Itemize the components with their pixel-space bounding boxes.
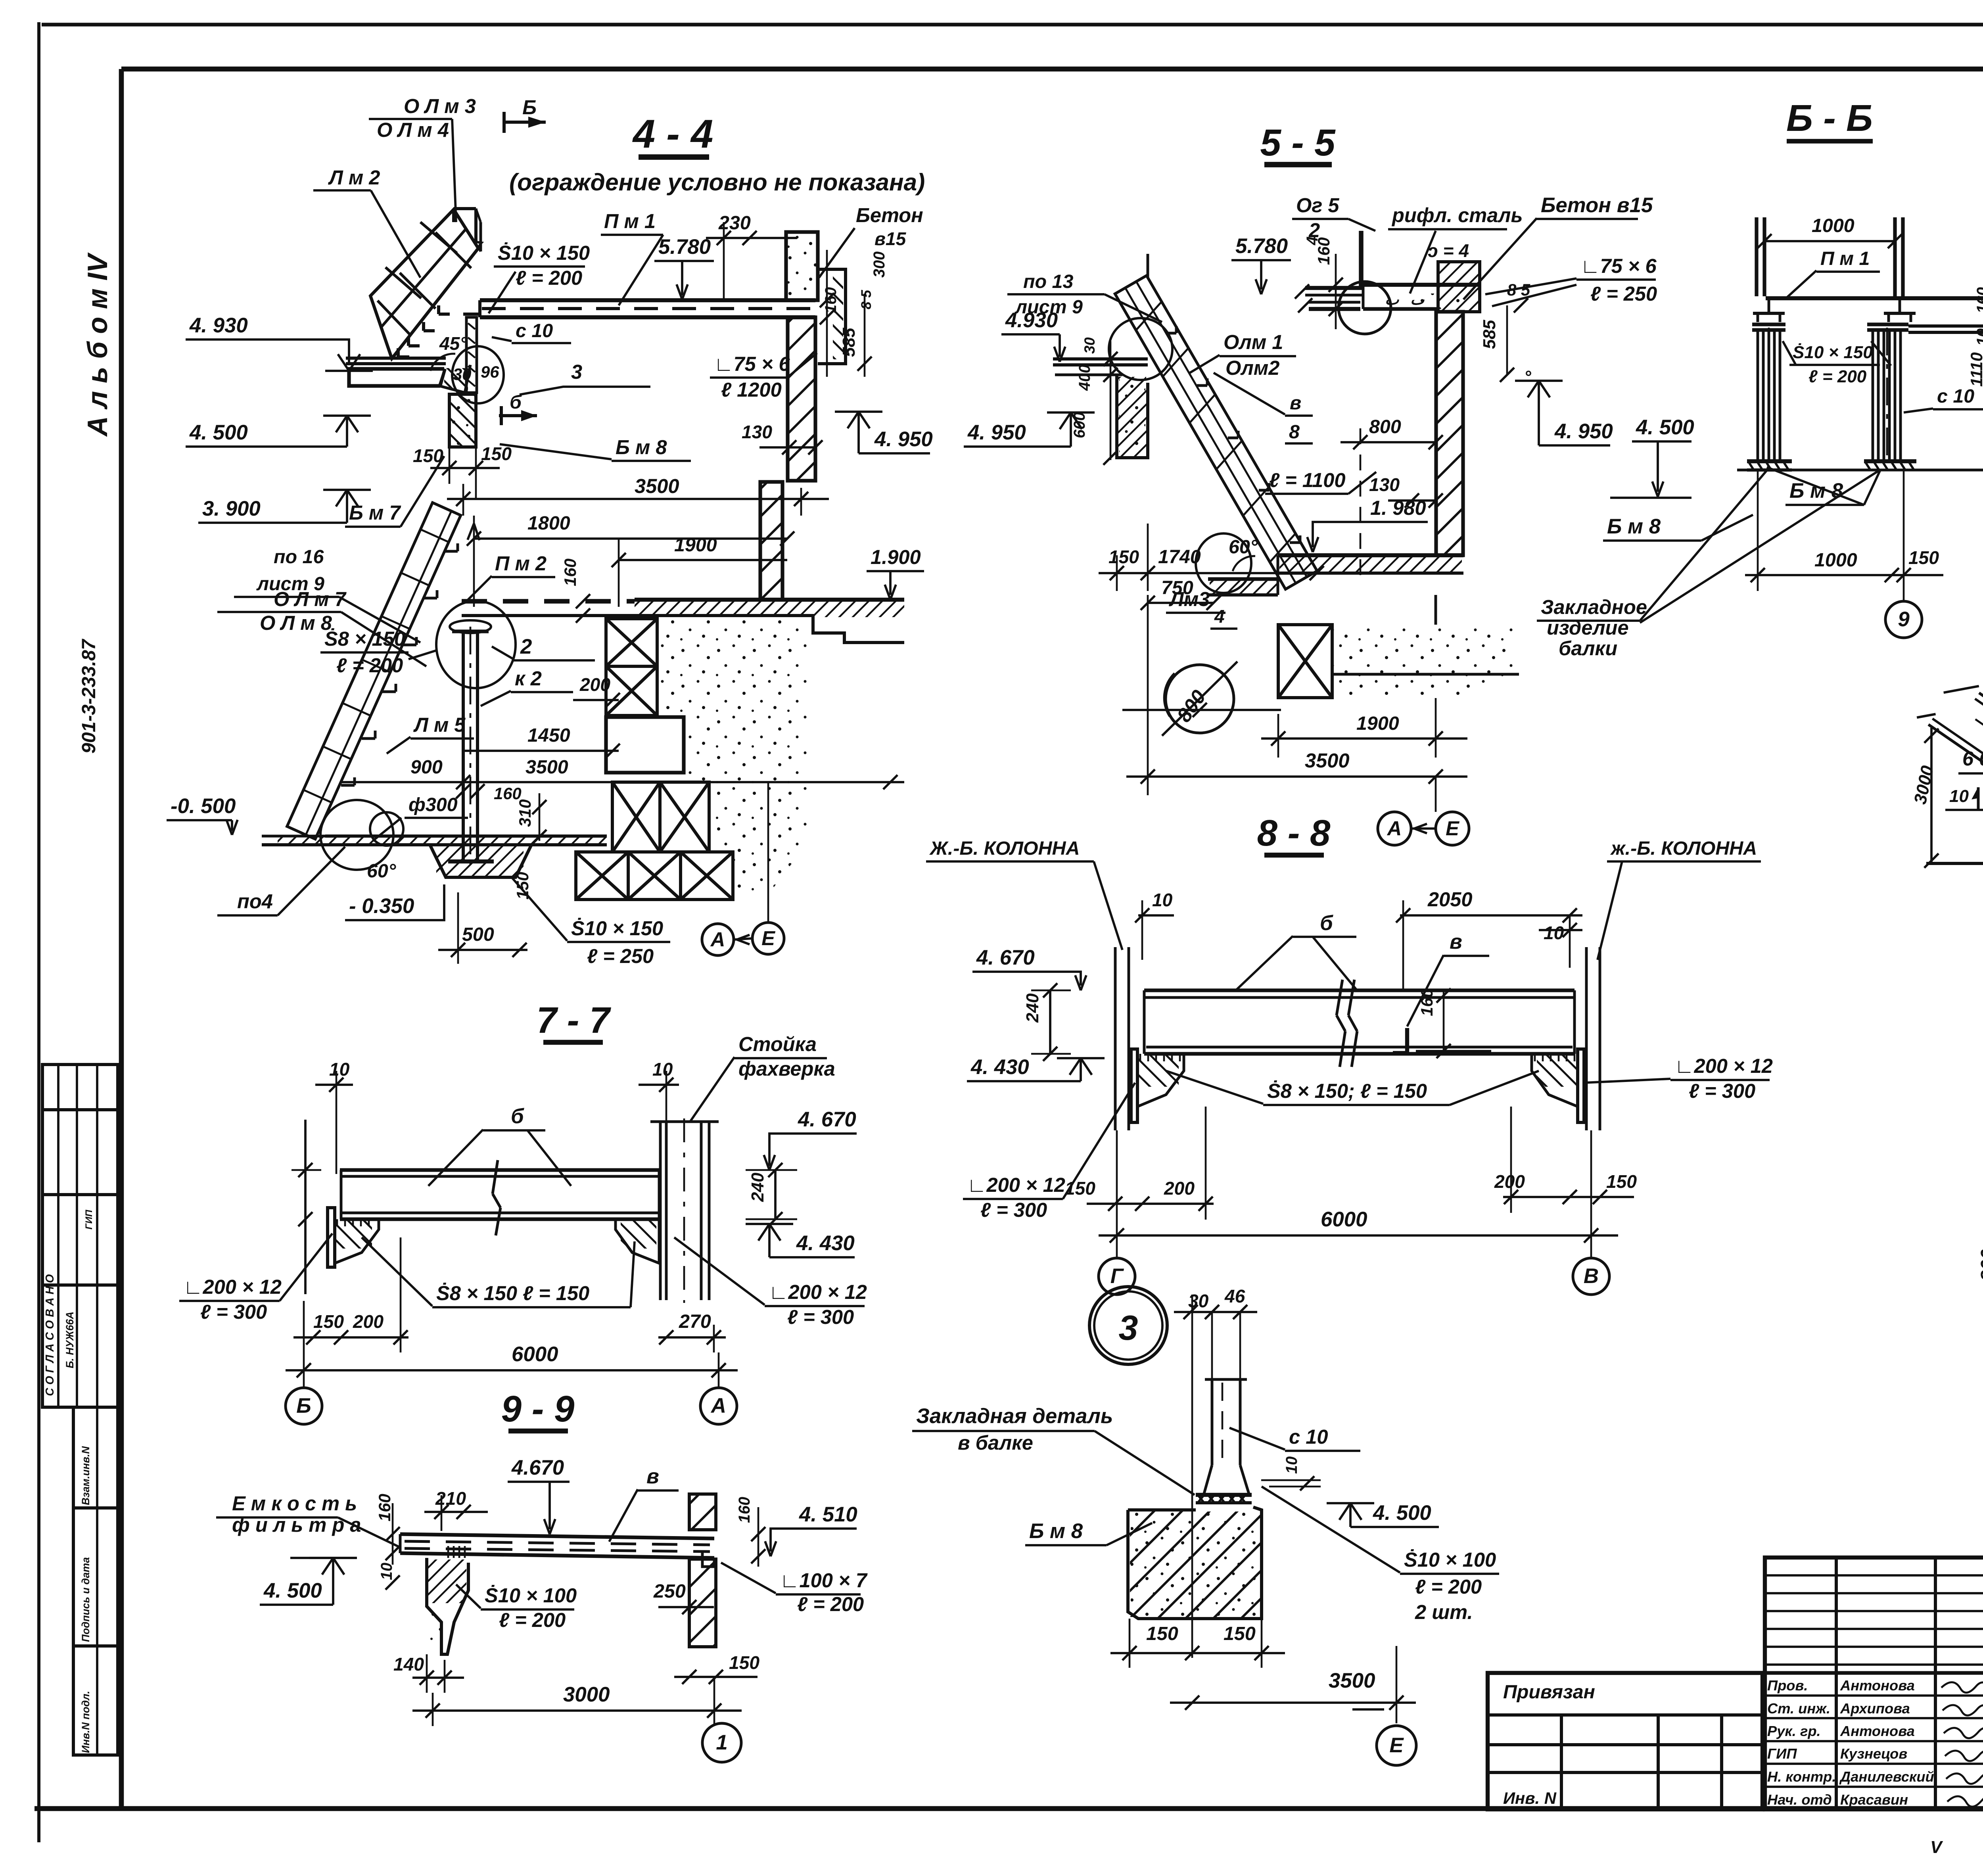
svg-text:8 - 8: 8 - 8 <box>1257 812 1331 854</box>
svg-text:4.930: 4.930 <box>1005 309 1058 332</box>
svg-text:ж.-Б. КОЛОННА: ж.-Б. КОЛОННА <box>1610 838 1757 859</box>
svg-text:∟200 × 12: ∟200 × 12 <box>1674 1055 1773 1077</box>
svg-text:-0. 500: -0. 500 <box>171 794 236 818</box>
svg-text:Б: Б <box>296 1394 311 1418</box>
svg-text:3500: 3500 <box>635 475 679 497</box>
svg-text:Привязан: Привязан <box>1503 1681 1595 1703</box>
svg-text:4. 430: 4. 430 <box>796 1231 855 1255</box>
svg-text:30: 30 <box>1081 337 1098 354</box>
ground line 6-6 <box>1737 469 1983 472</box>
floor slab dashed Pm2 <box>462 599 635 604</box>
left console bracket 9-9 <box>427 1558 468 1654</box>
ladder flight Lm5 <box>287 503 461 839</box>
svg-text:1900: 1900 <box>674 534 717 556</box>
svg-text:ГИП: ГИП <box>84 1210 94 1230</box>
svg-text:фахверка: фахверка <box>738 1057 835 1080</box>
detail circle 5-5 top right <box>1339 282 1391 334</box>
column right 6-6 fluted <box>1872 330 1874 461</box>
svg-text:П м 2: П м 2 <box>495 552 547 575</box>
svg-text:в: в <box>1450 930 1462 953</box>
ladder top peak 5-5 <box>1147 254 1149 278</box>
svg-text:46: 46 <box>1224 1286 1245 1306</box>
svg-text:Антонова: Антонова <box>1840 1677 1915 1694</box>
ladder flight Lm2 band <box>370 209 478 359</box>
svg-text:3. 900: 3. 900 <box>202 497 261 520</box>
svg-text:150: 150 <box>413 445 443 466</box>
svg-text:А: А <box>1387 817 1402 840</box>
svg-text:Красавин: Красавин <box>1840 1792 1908 1808</box>
wall below slab right 4-4 <box>788 317 815 481</box>
svg-text:4. 670: 4. 670 <box>976 946 1035 969</box>
svg-text:1740: 1740 <box>1158 546 1201 568</box>
left slab 5-5 <box>1053 357 1148 361</box>
svg-text:П м 1: П м 1 <box>1820 248 1870 269</box>
detail circle 5-5 mid <box>1109 318 1172 380</box>
svg-text:∟75 × 6: ∟75 × 6 <box>1580 255 1657 277</box>
svg-text:240: 240 <box>748 1172 767 1202</box>
svg-text:4.670: 4.670 <box>511 1456 564 1479</box>
svg-text:200: 200 <box>1494 1171 1525 1192</box>
svg-text:- 0.350: - 0.350 <box>349 894 414 918</box>
svg-text:Ог 5: Ог 5 <box>1296 194 1339 217</box>
svg-text:Бетон в15: Бетон в15 <box>1541 194 1653 217</box>
svg-text:6 0°: 6 0° <box>1962 747 1983 770</box>
svg-text:3: 3 <box>571 361 582 383</box>
svg-text:130: 130 <box>1369 474 1400 495</box>
bracket left 8-8 <box>1137 1054 1184 1107</box>
svg-text:4. 510: 4. 510 <box>799 1503 857 1526</box>
title block signature table <box>1765 1558 1983 1809</box>
X foundation blocks bottom row <box>576 852 628 900</box>
svg-text:140: 140 <box>393 1654 424 1675</box>
svg-text:рифл. сталь: рифл. сталь <box>1391 204 1523 226</box>
svg-text:10: 10 <box>1949 786 1969 806</box>
base plates 6-6 <box>1747 459 1792 463</box>
svg-text:4. 670: 4. 670 <box>798 1108 856 1131</box>
column K2 cap <box>452 629 489 633</box>
svg-text:400: 400 <box>1076 364 1093 391</box>
railing channel bars 5-5 <box>1305 286 1363 290</box>
svg-text:∟200 × 12: ∟200 × 12 <box>183 1276 282 1298</box>
svg-text:3000: 3000 <box>563 1683 610 1706</box>
svg-text:4. 500: 4. 500 <box>1636 416 1694 439</box>
svg-text:Ж.-Б. КОЛОННА: Ж.-Б. КОЛОННА <box>929 838 1080 859</box>
svg-text:210: 210 <box>435 1488 466 1509</box>
svg-text:по 13: по 13 <box>1023 271 1073 292</box>
svg-text:Ṡ10 × 100: Ṡ10 × 100 <box>1404 1548 1496 1571</box>
slab line 6-6 <box>1766 296 1983 300</box>
ground line detail4 <box>1926 862 1983 865</box>
svg-text:Пров.: Пров. <box>1767 1677 1808 1694</box>
beam 8-8 <box>1144 988 1575 992</box>
beam break marks 7-7 <box>493 1160 498 1194</box>
column K2 <box>462 631 465 861</box>
rail beam right 6-6 <box>1908 324 1983 328</box>
svg-text:Ṡ8 × 150: Ṡ8 × 150 <box>324 627 405 650</box>
vertical dim line left 7-7 <box>304 1120 307 1294</box>
page outer border left <box>37 22 40 1842</box>
svg-text:Подпись и дата: Подпись и дата <box>80 1557 92 1642</box>
concrete block right 5-5 <box>1438 262 1480 312</box>
ladder foot circle 5-5 <box>1196 533 1251 593</box>
svg-text:96: 96 <box>481 363 499 381</box>
svg-text:Б - Б: Б - Б <box>1786 97 1873 139</box>
svg-text:4 - 4: 4 - 4 <box>632 111 713 156</box>
svg-text:3: 3 <box>1119 1308 1138 1347</box>
svg-text:150: 150 <box>513 872 532 900</box>
drawing frame left <box>119 69 124 1809</box>
svg-text:Антонова: Антонова <box>1840 1723 1915 1739</box>
column right 8-8 <box>1585 947 1588 1130</box>
svg-text:5.780: 5.780 <box>658 235 711 259</box>
svg-text:310: 310 <box>516 799 534 827</box>
svg-text:по 16: по 16 <box>274 546 324 568</box>
svg-text:10: 10 <box>1283 1456 1300 1474</box>
svg-text:∟200 × 12: ∟200 × 12 <box>769 1281 867 1303</box>
svg-text:150: 150 <box>729 1652 759 1673</box>
svg-text:10: 10 <box>1974 328 1983 346</box>
svg-text:1800: 1800 <box>527 512 570 534</box>
svg-text:ℓ = 200: ℓ = 200 <box>797 1593 864 1615</box>
left plate 7-7 <box>328 1208 335 1267</box>
wall parapet right 4-4 <box>786 232 818 300</box>
svg-text:V: V <box>1930 1838 1943 1857</box>
slab edge right 5-5 lower <box>1435 595 1437 625</box>
column left 6-6 fluted <box>1757 330 1759 461</box>
svg-text:1900: 1900 <box>1356 713 1399 734</box>
right column fahverka 7-7 <box>659 1122 662 1300</box>
svg-text:балки: балки <box>1559 637 1617 660</box>
svg-text:4. 500: 4. 500 <box>1373 1501 1431 1525</box>
svg-text:°: ° <box>1524 367 1531 387</box>
svg-text:в: в <box>1290 392 1301 414</box>
svg-text:Л м 5: Л м 5 <box>413 714 466 736</box>
svg-text:Л м 2: Л м 2 <box>328 166 380 189</box>
svg-text:∟100 × 7: ∟100 × 7 <box>780 1569 868 1592</box>
svg-text:Е: Е <box>761 927 775 950</box>
svg-text:Олм 1: Олм 1 <box>1224 331 1283 353</box>
svg-text:8 5: 8 5 <box>859 290 874 309</box>
svg-text:ℓ = 1100: ℓ = 1100 <box>1269 469 1346 491</box>
column K2 base <box>448 859 494 863</box>
svg-text:В: В <box>1584 1264 1599 1288</box>
base plate weld detail3 <box>1196 1493 1252 1497</box>
tread hooks Lm2 <box>439 313 450 316</box>
svg-text:901-3-233.87: 901-3-233.87 <box>78 639 100 754</box>
svg-text:160: 160 <box>822 287 840 313</box>
svg-text:с 10: с 10 <box>1937 386 1974 407</box>
svg-text:3500: 3500 <box>1305 749 1350 772</box>
svg-text:4. 930: 4. 930 <box>189 314 248 337</box>
axis bubbles A E 5-5 <box>1378 812 1411 845</box>
svg-text:б: б <box>511 1105 524 1128</box>
svg-text:160: 160 <box>561 558 579 586</box>
svg-text:О Л м 8: О Л м 8 <box>260 612 332 634</box>
svg-text:ℓ = 200: ℓ = 200 <box>499 1609 566 1631</box>
svg-text:б: б <box>510 391 522 413</box>
svg-text:4. 430: 4. 430 <box>970 1055 1029 1079</box>
svg-text:9: 9 <box>1898 608 1910 631</box>
svg-text:10: 10 <box>1152 890 1173 910</box>
stud marks 9-9 <box>447 1546 449 1558</box>
svg-text:Б м 8: Б м 8 <box>1029 1519 1083 1543</box>
svg-text:Е: Е <box>1389 1734 1404 1757</box>
detail circle lower left <box>320 800 393 870</box>
svg-text:Стойка: Стойка <box>738 1033 817 1055</box>
foundation pit under K2 <box>430 845 531 877</box>
slab body 5-5 <box>1363 283 1478 287</box>
svg-text:1450: 1450 <box>527 725 570 746</box>
svg-text:Б. НУЖ66А: Б. НУЖ66А <box>64 1312 76 1368</box>
svg-text:60°: 60° <box>1229 536 1258 558</box>
svg-text:150: 150 <box>1908 547 1939 568</box>
axis bubbles A E lower 4-4 <box>702 924 734 955</box>
ladder flight Lm2 lattice <box>435 232 471 268</box>
svg-text:2050: 2050 <box>1427 888 1473 911</box>
wall lower 4-4 <box>760 482 782 600</box>
svg-text:Архипова: Архипова <box>1840 1700 1910 1717</box>
svg-text:в балке: в балке <box>958 1431 1033 1454</box>
beam flanges 6-6 <box>1753 312 1785 315</box>
svg-text:300: 300 <box>871 251 888 278</box>
title block signatures scribbles <box>1941 1682 1983 1807</box>
svg-text:Закладная деталь: Закладная деталь <box>916 1404 1113 1428</box>
right wall 9-9 <box>689 1494 716 1530</box>
svg-text:200: 200 <box>353 1311 384 1332</box>
svg-text:1: 1 <box>716 1731 727 1754</box>
column caps 6-6 <box>1752 322 1785 326</box>
title block privyazan table <box>1488 1673 1762 1809</box>
slab haunch detail <box>439 365 470 393</box>
plain foundation block <box>606 717 684 773</box>
svg-text:Взам.инв.N: Взам.инв.N <box>80 1446 92 1505</box>
svg-text:1.900: 1.900 <box>871 546 921 568</box>
beams above slab 6-6 <box>1755 217 1758 296</box>
svg-text:Б м 8: Б м 8 <box>1607 515 1661 538</box>
svg-text:3500: 3500 <box>1329 1669 1375 1692</box>
svg-text:130: 130 <box>742 422 772 442</box>
svg-text:Ṡ8 × 150 ℓ = 150: Ṡ8 × 150 ℓ = 150 <box>436 1282 589 1304</box>
dim line through circle 5-5 <box>1122 709 1281 711</box>
beam 7-7 <box>340 1168 660 1172</box>
svg-text:2 шт.: 2 шт. <box>1415 1601 1473 1623</box>
svg-text:Инв.N подл.: Инв.N подл. <box>80 1691 92 1753</box>
svg-text:Б м 8: Б м 8 <box>616 436 667 458</box>
floor slab 5-5 bottom <box>1278 553 1463 557</box>
svg-text:8 5: 8 5 <box>1507 280 1530 299</box>
svg-text:240: 240 <box>1023 993 1042 1023</box>
svg-text:10: 10 <box>1544 923 1564 943</box>
svg-text:А: А <box>710 928 725 951</box>
svg-text:Ṡ10 × 150: Ṡ10 × 150 <box>571 917 663 940</box>
block Bm8 detail3 <box>1128 1507 1262 1619</box>
svg-text:б: б <box>1320 911 1333 935</box>
beam break marks 8-8 <box>1337 980 1342 1015</box>
svg-text:О Л м 7: О Л м 7 <box>274 588 347 610</box>
slab 9-9 <box>400 1534 714 1538</box>
bearing plate right 8-8 <box>1578 1049 1584 1122</box>
ladder treads Lm5 <box>341 784 355 787</box>
svg-text:Б: Б <box>522 96 537 119</box>
svg-text:Е м к о с т ь: Е м к о с т ь <box>232 1492 357 1515</box>
svg-text:4: 4 <box>1214 606 1225 627</box>
detail circle 2 mark lower <box>436 601 516 688</box>
column left 8-8 <box>1114 947 1117 1130</box>
svg-text:900: 900 <box>410 756 443 778</box>
svg-text:10: 10 <box>378 1563 395 1580</box>
svg-text:Ṡ8 × 150; ℓ = 150: Ṡ8 × 150; ℓ = 150 <box>1267 1080 1427 1102</box>
svg-text:9 - 9: 9 - 9 <box>501 1388 575 1429</box>
svg-text:Ṡ10 × 100: Ṡ10 × 100 <box>485 1584 577 1607</box>
svg-text:С О Г Л А С О В А Н О: С О Г Л А С О В А Н О <box>44 1274 56 1396</box>
svg-text:30: 30 <box>453 365 472 384</box>
circle 800 mark 5-5 <box>1166 665 1234 733</box>
svg-text:4. 500: 4. 500 <box>263 1579 322 1602</box>
svg-text:800: 800 <box>1977 1249 1983 1281</box>
svg-text:П м 1: П м 1 <box>604 210 656 232</box>
svg-text:Ст. инж.: Ст. инж. <box>1767 1700 1830 1717</box>
left column block 5-5 <box>1117 375 1148 458</box>
svg-text:10: 10 <box>652 1059 673 1080</box>
svg-text:ф и л ь т р а: ф и л ь т р а <box>232 1513 361 1536</box>
svg-text:Лм3: Лм3 <box>1168 588 1210 610</box>
svg-text:Ṡ10 × 150: Ṡ10 × 150 <box>498 242 590 264</box>
svg-text:4. 500: 4. 500 <box>189 421 248 444</box>
wall right 5-5 <box>1436 312 1463 555</box>
axis bubbles B A 7-7 <box>286 1388 322 1424</box>
svg-text:3500: 3500 <box>525 756 568 778</box>
svg-text:1. 980: 1. 980 <box>1370 497 1426 519</box>
section mark B top <box>505 121 546 124</box>
detail circle 3 <box>1089 1287 1167 1364</box>
svg-text:Е: Е <box>1446 817 1459 840</box>
svg-text:160: 160 <box>1417 988 1436 1016</box>
svg-text:6000: 6000 <box>1321 1208 1367 1231</box>
svg-text:ℓ = 250: ℓ = 250 <box>1590 282 1657 305</box>
svg-text:585: 585 <box>1480 320 1499 349</box>
svg-text:ℓ = 300: ℓ = 300 <box>787 1306 854 1328</box>
axis bubble 1 9-9 <box>702 1723 741 1762</box>
concrete dotted zone 5-5 <box>1332 625 1517 698</box>
slab right end hook 9-9 <box>702 1550 714 1567</box>
svg-text:250: 250 <box>653 1581 686 1602</box>
svg-text:160: 160 <box>736 1497 753 1523</box>
svg-text:Закладное: Закладное <box>1541 596 1647 618</box>
svg-text:60°: 60° <box>367 860 396 882</box>
corner angle mark 8-8 <box>1393 1028 1407 1053</box>
drawing frame top <box>121 67 1983 72</box>
ladder band detail 4 <box>1917 667 1983 916</box>
ground slab left lower <box>325 834 607 838</box>
svg-text:Н. контр.: Н. контр. <box>1767 1769 1836 1785</box>
post detail 3 <box>1211 1312 1213 1379</box>
axis bubble 9 <box>1885 601 1922 638</box>
svg-text:ℓ = 300: ℓ = 300 <box>200 1301 267 1323</box>
detail circle 3 mark <box>452 346 504 403</box>
concrete dotted zone 4-4 <box>658 619 809 890</box>
svg-text:ф300: ф300 <box>408 794 458 815</box>
svg-text:270: 270 <box>679 1311 711 1332</box>
svg-text:(ограждение условно не показан: (ограждение условно не показана) <box>509 169 925 196</box>
svg-text:3000: 3000 <box>1910 764 1937 806</box>
axis bubble E detail3 <box>1377 1726 1416 1765</box>
column c10 under slab <box>466 317 477 393</box>
X block 5-5 foundation <box>1278 625 1332 698</box>
svg-text:150: 150 <box>1224 1623 1256 1644</box>
svg-text:2: 2 <box>520 635 532 658</box>
svg-text:А л ь б о м IV: А л ь б о м IV <box>82 252 113 437</box>
svg-text:ℓ = 300: ℓ = 300 <box>980 1199 1047 1221</box>
channel bracket right 4-4 <box>818 269 846 364</box>
svg-text:с 10: с 10 <box>1289 1425 1328 1448</box>
svg-text:1110: 1110 <box>1967 352 1983 387</box>
svg-text:ℓ = 200: ℓ = 200 <box>1808 367 1867 386</box>
svg-text:Данилевский: Данилевский <box>1839 1769 1934 1785</box>
svg-text:ℓ = 200: ℓ = 200 <box>1415 1575 1482 1598</box>
svg-text:5 - 5: 5 - 5 <box>1260 122 1336 164</box>
svg-text:ℓ = 300: ℓ = 300 <box>1689 1080 1755 1102</box>
svg-text:1000: 1000 <box>1814 549 1857 571</box>
svg-text:∟75 × 6: ∟75 × 6 <box>714 353 790 375</box>
X foundation blocks column <box>606 619 657 666</box>
svg-text:5.780: 5.780 <box>1235 234 1288 258</box>
svg-text:Инв. N: Инв. N <box>1503 1789 1557 1807</box>
svg-text:ℓ = 200: ℓ = 200 <box>336 654 403 677</box>
ladder 5-5 flight <box>1115 276 1317 589</box>
left bracket 7-7 <box>335 1219 379 1263</box>
svg-text:ℓ 1200: ℓ 1200 <box>721 378 782 401</box>
railing post Og5 <box>1359 231 1364 286</box>
svg-text:А: А <box>710 1394 726 1418</box>
svg-text:к 2: к 2 <box>515 667 542 690</box>
X foundation blocks mid <box>612 782 660 852</box>
svg-text:ℓ = 250: ℓ = 250 <box>587 945 654 967</box>
left slab at 4.930 <box>346 357 446 360</box>
svg-text:Бетон: Бетон <box>856 204 923 226</box>
column under beam hatched <box>449 394 476 447</box>
right bracket 7-7 <box>616 1219 659 1263</box>
left margin stamp box 2 <box>73 1407 118 1755</box>
svg-text:150: 150 <box>1146 1623 1178 1644</box>
bracket right 8-8 <box>1532 1054 1578 1107</box>
svg-text:с 10: с 10 <box>516 320 553 341</box>
svg-text:150: 150 <box>1108 547 1139 567</box>
svg-text:по4: по4 <box>237 890 273 913</box>
svg-text:10: 10 <box>329 1059 350 1080</box>
svg-text:в: в <box>646 1465 659 1488</box>
svg-text:4. 950: 4. 950 <box>1554 420 1613 443</box>
svg-text:150: 150 <box>313 1311 344 1332</box>
svg-text:Г: Г <box>1110 1264 1124 1288</box>
svg-text:О Л м 3: О Л м 3 <box>404 95 476 117</box>
svg-text:150: 150 <box>481 443 512 464</box>
section mark B bottom <box>499 414 537 417</box>
svg-text:Олм2: Олм2 <box>1225 357 1279 379</box>
svg-text:ɔ = 4: ɔ = 4 <box>1428 240 1469 261</box>
page outer border top <box>42 23 1983 26</box>
svg-text:Рук. гр.: Рук. гр. <box>1767 1723 1821 1739</box>
svg-text:500: 500 <box>462 924 494 945</box>
svg-text:∟200 × 12: ∟200 × 12 <box>967 1174 1065 1196</box>
svg-text:Б м 7: Б м 7 <box>349 501 401 524</box>
svg-text:4. 950: 4. 950 <box>967 421 1026 444</box>
axis bubbles G V 8-8 <box>1099 1258 1135 1295</box>
svg-text:7 - 7: 7 - 7 <box>537 999 611 1041</box>
svg-text:800: 800 <box>1369 416 1401 437</box>
svg-text:1000: 1000 <box>1812 215 1855 236</box>
beam Pm1 slab 4-4 <box>480 298 815 302</box>
svg-text:Кузнецов: Кузнецов <box>1840 1746 1907 1762</box>
